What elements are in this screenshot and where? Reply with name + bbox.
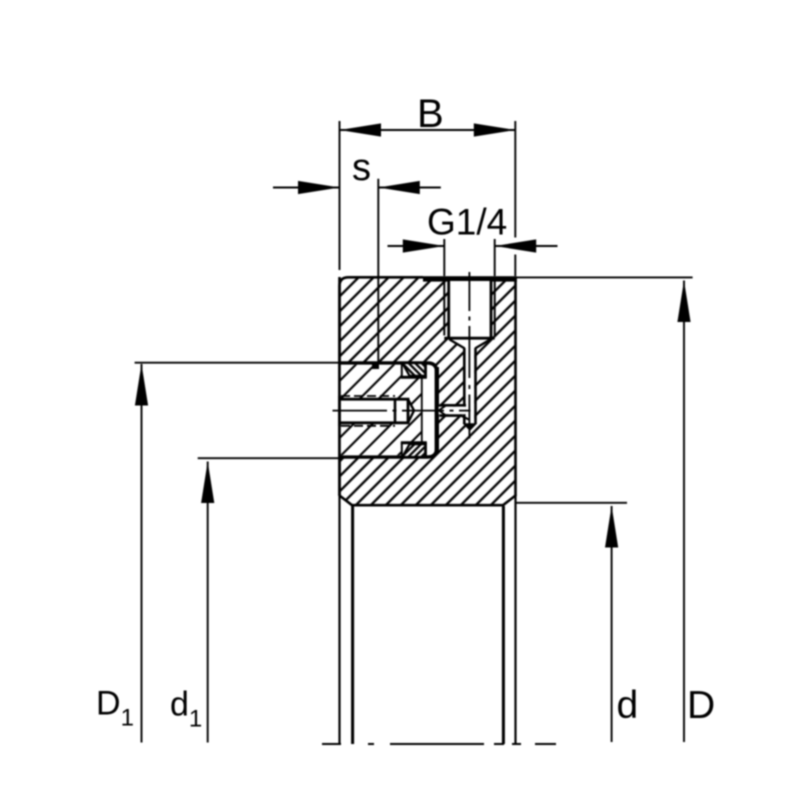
d dimension [516, 503, 639, 742]
svg-text:D: D [687, 684, 715, 727]
s dimension [273, 147, 441, 364]
duct walls [463, 348, 466, 424]
D dimension [511, 277, 715, 742]
svg-text:G1/4: G1/4 [427, 202, 507, 243]
svg-text:B: B [417, 92, 444, 136]
o-ring groove + seal bottom [401, 443, 427, 457]
piston chamber (white cavity, thick outline) [340, 363, 437, 457]
countersink cone [449, 339, 464, 348]
d1 dimension [170, 458, 340, 742]
hole outline [340, 399, 409, 423]
duct drill tip [463, 423, 478, 431]
G1/4 threaded port [444, 281, 494, 431]
thread end line [394, 398, 397, 424]
thread major dashed lines [341, 395, 395, 397]
nut body (hatched section) [340, 277, 516, 505]
hole centerline [333, 410, 471, 412]
D1 dimension [96, 363, 340, 743]
port centerline [468, 272, 470, 439]
left face line across hole [338, 396, 341, 426]
piston (hatched) [341, 365, 422, 456]
body left face line (over chamber mouth) [338, 277, 341, 496]
G1/4 dimension [388, 202, 558, 277]
svg-text:d: d [617, 684, 639, 727]
svg-text:d1: d1 [170, 686, 202, 733]
vent notch on piston top [372, 363, 379, 369]
svg-text:D1: D1 [96, 685, 134, 732]
bore lines below body [340, 494, 516, 744]
port bottom [444, 337, 494, 340]
svg-text:s: s [352, 147, 371, 189]
port thread major (thin) [443, 281, 445, 336]
piston right face [421, 377, 423, 444]
B dimension [340, 92, 516, 276]
tapped hole in piston [340, 396, 415, 426]
port walls (thick) [447, 281, 450, 339]
horizontal oil duct [439, 405, 470, 420]
axis centerline [322, 743, 556, 745]
top face thick edge (spot face around port) [423, 276, 517, 281]
o-ring groove + seal top [401, 363, 427, 377]
